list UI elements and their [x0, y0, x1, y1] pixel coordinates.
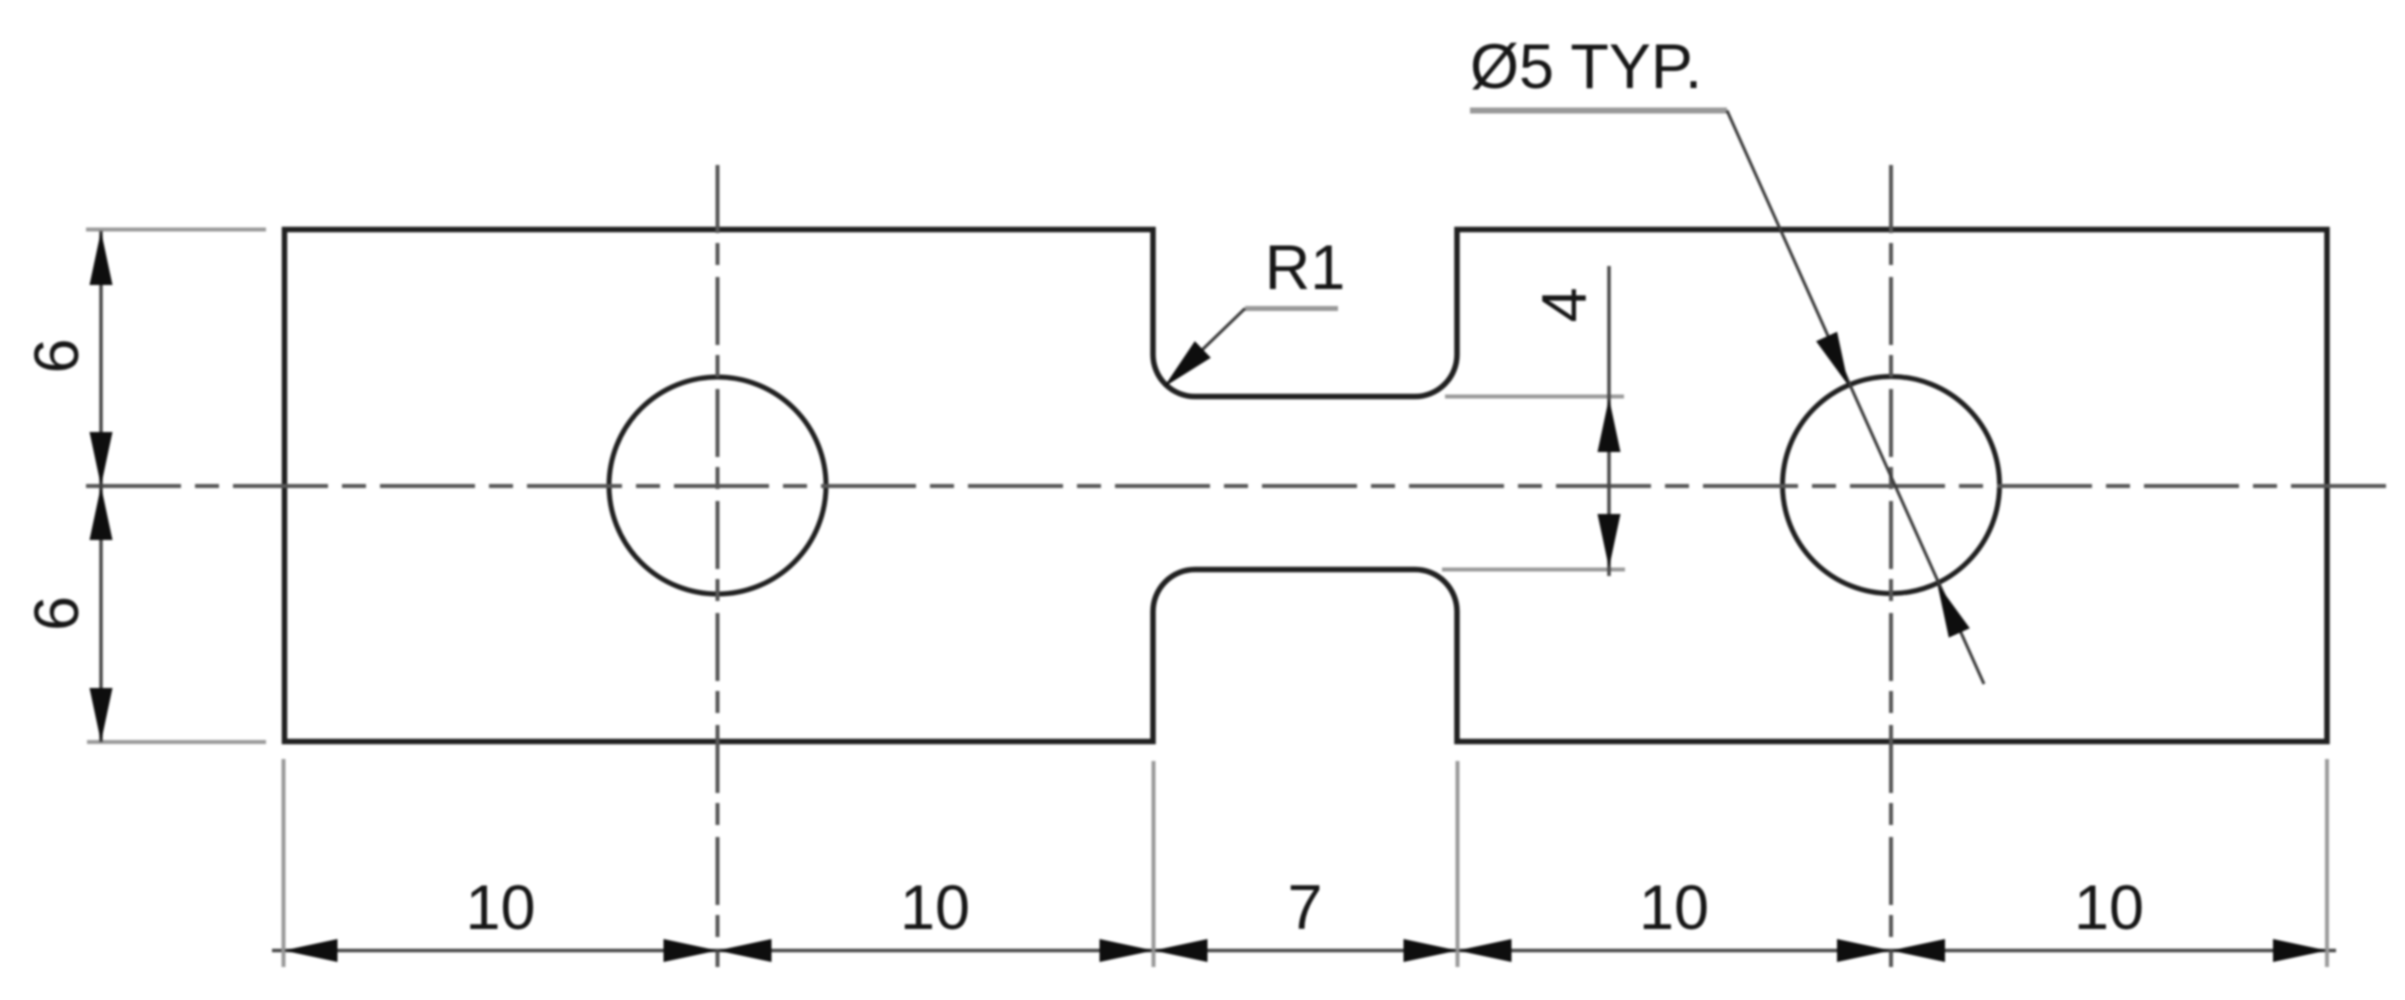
extension line bottom x283	[282, 759, 286, 967]
arrow down to centerline	[90, 432, 113, 486]
R1 leader	[1172, 309, 1245, 380]
arrow pair at x717	[664, 939, 718, 962]
svg-text:4: 4	[1530, 287, 1600, 322]
extension line for 4 bottom	[1442, 568, 1625, 572]
arrow left end	[284, 939, 338, 962]
arrow up to centerline	[90, 486, 113, 540]
svg-text:6: 6	[22, 596, 92, 631]
hole circle left	[609, 377, 826, 594]
svg-text:10: 10	[1639, 873, 1709, 943]
arrow up to neck top	[1598, 398, 1621, 452]
bottom dimension line	[272, 949, 2336, 953]
R1 underline	[1245, 306, 1338, 311]
part outline (dog-bone specimen)	[285, 230, 2328, 742]
arrow down at bottom edge	[90, 688, 113, 742]
arrow pair at x1891	[1837, 939, 1891, 962]
extension line bottom left	[87, 740, 266, 744]
vertical centerline right hole	[1889, 165, 1893, 967]
extension line bottom x2327	[2325, 759, 2329, 967]
svg-text:10: 10	[2074, 873, 2144, 943]
extension line bottom x1153	[1152, 761, 1156, 967]
svg-text:R1: R1	[1265, 233, 1346, 303]
diameter arrowhead lower	[1937, 584, 1970, 638]
vertical centerline left hole	[716, 165, 720, 967]
svg-text:Ø5 TYP.: Ø5 TYP.	[1470, 32, 1702, 102]
diameter underline	[1470, 108, 1727, 114]
arrow pair at x1153	[1100, 939, 1154, 962]
horizontal centerline	[86, 484, 2388, 488]
svg-text:10: 10	[900, 873, 970, 943]
svg-text:7: 7	[1287, 873, 1322, 943]
svg-text:6: 6	[22, 338, 92, 373]
R1 arrowhead	[1164, 341, 1211, 387]
arrow down to neck bottom	[1598, 514, 1621, 568]
diameter arrowhead upper	[1816, 332, 1849, 386]
arrow pair at x1457	[1404, 939, 1458, 962]
arrow right end	[2273, 939, 2327, 962]
dimension line 6+6 vertical	[99, 231, 103, 742]
svg-text:10: 10	[465, 873, 535, 943]
extension line top left	[86, 228, 266, 232]
arrow up at top edge	[90, 231, 113, 285]
extension line bottom x1457	[1456, 761, 1460, 967]
diameter leader	[1727, 111, 1984, 685]
hole circle right	[1783, 377, 2000, 594]
extension line for 4 top	[1445, 395, 1624, 399]
dimension line 4 vertical	[1607, 266, 1611, 576]
